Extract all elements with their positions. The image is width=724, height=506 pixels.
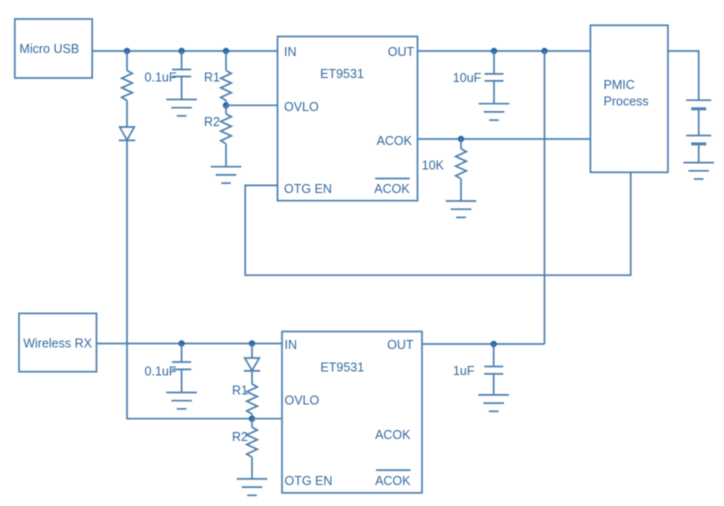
svg-text:R2: R2 [232,430,248,444]
resistor R2 (bottom divider) [232,419,257,458]
wire: Wireless RX to ET9531#2 IN [97,343,283,345]
svg-text:OVLO: OVLO [285,393,320,407]
svg-text:OVLO: OVLO [284,100,319,114]
node: junction at 10K resistor [458,136,464,142]
svg-text:PMIC: PMIC [604,78,635,92]
wire: OUT bus vertical down to ET9531#2 OUT [544,51,546,344]
svg-text:ACOK: ACOK [374,182,410,196]
Wireless RX block J2 [19,313,97,371]
diode D2 (cathode down) [244,358,260,371]
wire: D2 to R1 bottom [251,371,253,384]
wire: PMIC right pin to battery [668,51,699,100]
wire: U1 OTG EN loop to PMIC bottom pin [245,172,631,275]
svg-text:ET9531: ET9531 [320,67,364,81]
svg-text:IN: IN [284,45,297,59]
node: junction at bottom 0.1uF cap [178,340,184,346]
wire: bottom junction down to diode D2 [251,344,253,358]
svg-text:Process: Process [604,95,649,109]
Micro USB connector block J1 [15,19,92,78]
capacitor C3 0.1uF [145,362,192,378]
op-amp U1 ET9531 block [278,37,418,201]
svg-text:Micro USB: Micro USB [19,42,79,56]
wire: top rail down to R1 [225,51,227,71]
wire: bottom R1 to divider node [251,414,253,419]
node: junction at 10uF cap [491,48,497,54]
wire: top rail down to resistor [126,51,128,71]
ground under battery [683,163,714,179]
ground under C4 [478,395,509,411]
wire: U1 ACOK to PMIC [418,138,591,140]
svg-text:Wireless RX: Wireless RX [23,336,92,350]
wire: 10K bottom lead to ground [460,179,462,201]
node: junction at x=127 on top rail [124,48,130,54]
svg-text:OTG EN: OTG EN [285,474,333,488]
svg-text:ACOK: ACOK [375,474,411,488]
wire: R2 bottom lead to ground [225,144,227,167]
ground under C1 [166,100,197,116]
battery BT1 (two cells) [686,100,711,144]
svg-text:IN: IN [285,338,298,352]
wire: divider node to OVLO pin [226,104,278,106]
capacitor C1 0.1uF [145,70,192,85]
op-amp U2 ET9531 block [282,332,422,493]
wire: C2 bottom lead to ground [493,81,495,104]
node: R1/R2 divider junction [223,102,229,108]
svg-text:OUT: OUT [388,45,415,59]
resistor R1 (top divider) [204,70,231,100]
wire: C4 bottom lead to ground [493,374,495,395]
ground under bottom R2 [237,479,268,495]
svg-text:10uF: 10uF [453,71,482,85]
wire: R1 to divider node [225,101,227,106]
svg-text:OTG EN: OTG EN [284,182,332,196]
svg-text:10K: 10K [422,158,445,172]
node: junction at bottom diode [249,340,255,346]
svg-text:OUT: OUT [387,338,414,352]
ground under C2 [479,104,510,120]
svg-text:0.1uF: 0.1uF [145,364,177,378]
ground under R2 [211,167,242,183]
svg-text:R1: R1 [204,70,220,84]
ground under 10K [446,201,477,217]
wire: U1 OUT to PMIC [418,50,591,52]
node: bottom divider junction [249,416,255,422]
PMIC Process block [590,25,668,172]
node: junction at 0.1uF cap top rail [178,48,184,54]
wire: bottom R2 to ground [251,457,253,479]
wire: diode down, long vertical to bottom OVLO feedback, corner at y=418.7 [127,140,252,418]
svg-text:1uF: 1uF [453,364,475,378]
svg-text:ACOK: ACOK [377,134,413,148]
wire: U2 OUT to OUT bus [422,343,545,345]
resistor R1 (bottom divider) [232,384,257,414]
node: junction at OUT bus vertical [541,48,547,54]
svg-text:R1: R1 [232,384,248,398]
resistor R3 10K [422,149,467,179]
wire: 1uF top lead [493,344,495,367]
wire: 0.1uF cap top lead [181,51,183,70]
svg-text:ET9531: ET9531 [320,361,364,375]
capacitor C2 10uF [453,71,504,85]
svg-text:0.1uF: 0.1uF [145,70,177,84]
wire: C3 bottom lead to ground [181,369,183,392]
wire: 10uF top lead [493,51,495,74]
diode D1 (cathode down) [119,127,135,140]
wire: C1 bottom lead to ground [181,77,183,100]
node: junction at R1 top rail [223,48,229,54]
node: junction at 1uF cap [491,341,497,347]
ground under C3 [166,393,197,409]
wire: Micro USB output to ET9531#1 IN [92,50,277,52]
wire: bottom 0.1uF top lead [181,344,183,363]
svg-text:ACOK: ACOK [375,428,411,442]
wire: battery to ground [698,144,700,163]
resistor R2 (top divider) [204,105,231,144]
capacitor C4 1uF [453,364,503,378]
resistor (unlabeled) below Micro USB junction [122,71,133,101]
wire: ACOK node down to 10K [460,139,462,149]
svg-text:R2: R2 [204,115,220,129]
wire: bottom divider node to OVLO pin [252,418,282,420]
wire: resistor to diode D1 [126,101,128,127]
